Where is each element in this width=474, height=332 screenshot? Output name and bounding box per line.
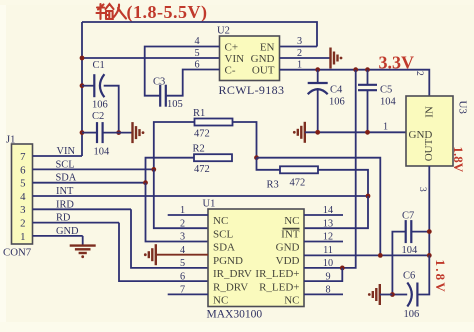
junction C6/C7 ground	[390, 292, 395, 297]
junction C5 bottom	[365, 130, 370, 135]
svg-text:U2: U2	[217, 26, 230, 37]
wire C4 top stem	[317, 70, 319, 83]
svg-text:NC: NC	[213, 215, 228, 227]
net label 1.8V at C6 (rotated)	[433, 260, 448, 294]
wire U2 pin4 C+ down to C3	[145, 47, 220, 96]
U1 pin name NC (pin 7)	[213, 295, 228, 307]
svg-text:OUT: OUT	[423, 138, 435, 161]
wire INT from J1 pin4 to node under R3	[33, 195, 369, 197]
wire GND from J1 pin1	[33, 235, 83, 237]
U2 pin name C-	[225, 65, 236, 77]
wire C1 right + drop to C2 row	[104, 86, 119, 133]
U2 pin number 4	[194, 36, 199, 47]
svg-text:106: 106	[404, 309, 420, 320]
svg-text:U3: U3	[457, 101, 469, 115]
ground symbol at J1 GND	[70, 246, 96, 259]
wire input vertical riser at x82	[81, 22, 83, 156]
C2 refdes label	[92, 111, 104, 122]
svg-text:106: 106	[92, 100, 108, 111]
resistor R3	[280, 166, 318, 173]
capacitor C7	[406, 220, 412, 243]
U3 refdes label (rotated)	[457, 101, 469, 115]
svg-text:C-: C-	[225, 65, 236, 77]
svg-text:1.8V: 1.8V	[433, 260, 448, 294]
junction C5 top	[365, 67, 370, 72]
U1 pin number 3	[180, 232, 185, 243]
svg-text:C3: C3	[153, 77, 165, 88]
svg-text:R2: R2	[193, 144, 205, 155]
svg-text:VIN: VIN	[57, 146, 76, 157]
wire U1 pin10 IR_LED+	[304, 267, 342, 269]
junction LED supply	[340, 266, 345, 271]
svg-text:OUT: OUT	[252, 65, 275, 77]
svg-text:105: 105	[167, 99, 183, 110]
wire 3.3V down to IR_LED+	[342, 70, 355, 268]
net label INT	[56, 186, 74, 197]
svg-text:2: 2	[20, 218, 25, 230]
ground symbol at U1 PGND	[144, 244, 156, 265]
svg-text:5: 5	[20, 178, 25, 190]
svg-text:C+: C+	[225, 41, 239, 53]
wire to U1 pin9 R_LED+	[304, 268, 342, 281]
J1 pin number 4	[20, 191, 26, 203]
svg-text:C2: C2	[92, 111, 104, 122]
capacitor C4 (polarized)	[308, 83, 328, 94]
U2 pin name VIN	[225, 53, 245, 65]
svg-text:RD: RD	[56, 213, 71, 224]
wire C7 right to 1.8V line	[411, 231, 429, 233]
svg-text:3: 3	[180, 232, 185, 243]
svg-text:INT: INT	[281, 228, 300, 240]
wire common node row to VDD drop	[257, 158, 381, 256]
U1 pin number 11	[323, 245, 333, 256]
wire IRD from J1 pin3	[33, 208, 132, 210]
svg-text:MAX30100: MAX30100	[207, 309, 263, 321]
U2 pin number 1	[297, 59, 302, 70]
svg-text:4: 4	[194, 36, 199, 47]
net label 1.8V (rotated)	[451, 147, 466, 173]
C3 refdes label	[153, 77, 165, 88]
wire R3 left from common node	[257, 158, 281, 170]
U1 pin name NC (pin 14)	[284, 215, 299, 227]
capacitor C1 (polarized)	[94, 74, 104, 97]
svg-text:VDD: VDD	[276, 255, 300, 267]
U1 refdes label	[203, 199, 216, 210]
R1 refdes label	[193, 108, 205, 119]
U3 pin number 1	[383, 122, 388, 133]
C6 refdes label	[403, 271, 415, 282]
wire C6 left	[392, 294, 407, 296]
junction C1/C2 right	[116, 130, 121, 135]
net label RD	[56, 213, 71, 224]
svg-text:IN: IN	[423, 106, 435, 118]
wire U1 pin7 stub	[168, 293, 208, 295]
svg-text:PGND: PGND	[213, 255, 243, 267]
svg-text:C7: C7	[402, 211, 414, 222]
sensor U1 body	[208, 209, 304, 307]
J1 pin number 1	[20, 231, 25, 243]
wire VIN row to U2 pin5	[82, 57, 220, 59]
wire SDA down to U1 pin3	[146, 183, 209, 242]
wire 1.8V line down to C6	[418, 255, 429, 294]
wire R3 right down to INT node	[318, 170, 368, 196]
junction C4 top	[315, 67, 320, 72]
junction C1 row	[80, 83, 85, 88]
wire ground to C6 junction	[380, 294, 393, 296]
J1 pin number 3	[20, 204, 25, 216]
J1 value label CON7	[3, 247, 32, 259]
svg-text:6: 6	[20, 164, 26, 176]
J1 refdes label	[6, 135, 15, 146]
wire C3 right up to U2 pin6 C-	[166, 70, 220, 96]
wire R1 right to common node	[233, 122, 257, 158]
resistor R2	[194, 154, 232, 161]
svg-text:VIN: VIN	[225, 53, 245, 65]
svg-text:SDA: SDA	[56, 173, 77, 184]
svg-text:106: 106	[329, 97, 345, 108]
svg-text:SCL: SCL	[213, 228, 233, 240]
net label GND	[56, 226, 79, 237]
svg-text:5: 5	[194, 48, 199, 59]
wire C2 left	[82, 132, 97, 134]
U1 pin number 6	[180, 271, 185, 282]
U2 pin number 6	[194, 59, 199, 70]
svg-text:3: 3	[417, 187, 427, 192]
svg-text:104: 104	[402, 245, 419, 256]
R3 refdes label	[267, 180, 279, 191]
R1 value label 472	[194, 129, 210, 140]
capacitor C6 (polarized)	[407, 283, 417, 307]
regulator U3 body	[406, 96, 453, 166]
U1 pin name SDA (pin 3)	[213, 242, 235, 254]
U2 value label RCWL-9183	[219, 83, 285, 97]
svg-text:NC: NC	[284, 215, 299, 227]
svg-text:1: 1	[20, 231, 25, 243]
U1 pin name PGND (pin 4)	[213, 255, 243, 267]
junction 3.3V feed	[353, 67, 358, 72]
junction C7/1.8V	[427, 229, 432, 234]
svg-text:3: 3	[297, 36, 302, 47]
U1 pin name GND (pin 12)	[276, 242, 300, 254]
svg-text:C5: C5	[380, 85, 392, 96]
U1 pin number 12	[323, 232, 333, 243]
wire R1 left + drop to SCL	[154, 122, 195, 169]
svg-text:6: 6	[180, 271, 185, 282]
resistor R1	[195, 119, 233, 126]
svg-text:EN: EN	[260, 41, 275, 53]
U1 pin number 5	[180, 258, 185, 269]
wire VIN from J1 pin7	[33, 155, 83, 157]
svg-text:NC: NC	[284, 295, 299, 307]
U2 pin name C+	[225, 41, 239, 53]
U1 pin name SCL (pin 2)	[213, 228, 233, 240]
junction pull-up common node	[254, 155, 259, 160]
wire SDA from J1 pin5	[33, 182, 146, 184]
wire ground stub below GND	[82, 236, 84, 245]
svg-text:RCWL-9183: RCWL-9183	[219, 83, 285, 97]
connector J1 body	[12, 144, 33, 244]
svg-text:SDA: SDA	[213, 242, 235, 254]
C1 value label 106	[92, 100, 108, 111]
U3 pin name OUT (rotated)	[423, 138, 435, 161]
wire INT down to U1 pin13	[304, 196, 368, 228]
svg-text:1: 1	[297, 59, 302, 70]
svg-text:2: 2	[414, 71, 424, 76]
svg-text:4: 4	[20, 191, 26, 203]
svg-text:1: 1	[383, 122, 388, 133]
U2 pin name OUT	[252, 65, 275, 77]
net label VIN	[57, 146, 76, 157]
svg-text:3.3V: 3.3V	[379, 53, 415, 73]
svg-text:472: 472	[194, 129, 210, 140]
capacitor C2	[97, 122, 103, 143]
ground symbol at U2 GND	[331, 48, 343, 69]
wire 3.3V rail from U2 OUT	[280, 70, 430, 96]
junction INT/R3	[366, 194, 371, 199]
U1 pin name NC (pin 1)	[213, 215, 228, 227]
C7 value label 104	[402, 245, 419, 256]
wire VDD row U1 pin11 to U3 pin3	[304, 254, 429, 256]
svg-text:104: 104	[380, 97, 397, 108]
wire SCL from J1 pin6	[33, 168, 154, 170]
U3 pin number 2 (rotated)	[414, 71, 424, 76]
junction C2 row	[80, 130, 85, 135]
svg-text:1.8V: 1.8V	[451, 147, 466, 173]
svg-text:3: 3	[20, 204, 25, 216]
net label IRD	[56, 199, 74, 210]
svg-text:C1: C1	[93, 60, 105, 71]
R2 value label 472	[194, 164, 210, 175]
svg-text:5: 5	[180, 258, 185, 269]
svg-text:R_DRV: R_DRV	[213, 281, 248, 293]
svg-text:13: 13	[323, 218, 333, 229]
R3 value label 472	[290, 178, 306, 189]
C3 value label 105	[167, 99, 183, 110]
capacitor C3	[160, 85, 166, 107]
U1 pin number 1	[180, 205, 185, 216]
C4 value label 106	[329, 97, 345, 108]
wire U2 pin2 GND stub	[280, 57, 331, 59]
wire C2 right to ground	[103, 132, 132, 134]
svg-text:IRD: IRD	[56, 199, 74, 210]
svg-text:SCL: SCL	[56, 159, 75, 170]
svg-text:104: 104	[94, 147, 111, 158]
wire U1 pin8 stub	[304, 293, 343, 295]
J1 pin number 5	[20, 178, 25, 190]
wire U1 pin4 PGND to ground	[156, 254, 208, 256]
red input-voltage title text 输入(1.8-5.5V)	[97, 2, 208, 23]
svg-text:CON7: CON7	[3, 247, 32, 259]
R2 refdes label	[193, 144, 205, 155]
wire C1 left	[82, 85, 94, 87]
C5 value label 104	[380, 97, 397, 108]
wire U1 pin1 stub	[168, 214, 208, 216]
junction VIN row	[80, 56, 85, 61]
C6 value label 106	[404, 309, 420, 320]
wire C4 bottom stem	[317, 89, 319, 132]
svg-text:IR_DRV: IR_DRV	[213, 268, 252, 280]
svg-text:472: 472	[290, 178, 306, 189]
wire U1 pin12 stub	[304, 241, 343, 243]
svg-text:GND: GND	[276, 242, 300, 254]
C1 refdes label	[93, 60, 105, 71]
U3 pin name IN (rotated)	[423, 106, 435, 118]
capacitor C5	[358, 85, 377, 90]
svg-text:C4: C4	[330, 85, 343, 96]
wire RD down to U1 pin6	[119, 223, 208, 282]
ground symbol right of C2	[133, 122, 145, 143]
wire ground rail to U3 pin1	[305, 131, 406, 133]
C7 refdes label	[402, 211, 414, 222]
junction SDA/R2	[143, 180, 148, 185]
svg-text:J1: J1	[6, 135, 15, 146]
svg-text:GND: GND	[251, 53, 275, 65]
wire SCL down to U1 pin2	[154, 169, 208, 228]
svg-text:IR_LED+: IR_LED+	[255, 268, 299, 280]
charge-pump U2 body	[220, 36, 280, 81]
J1 pin number 6	[20, 164, 26, 176]
wire RD from J1 pin2	[33, 222, 120, 224]
svg-text:R3: R3	[267, 180, 279, 191]
C2 value label 104	[94, 147, 111, 158]
wire C7 left + drop to ground row	[392, 232, 405, 295]
U1 pin name VDD (pin 11)	[276, 255, 300, 267]
U1 pin name INT (pin 13)	[281, 228, 300, 240]
wire EN pin3 of U2	[280, 46, 318, 48]
wire C5 stems	[367, 70, 369, 133]
U2 pin number 5	[194, 48, 199, 59]
C5 refdes label	[380, 85, 392, 96]
svg-text:NC: NC	[213, 295, 228, 307]
wire U1 pin14 stub	[304, 214, 343, 216]
svg-text:472: 472	[194, 164, 210, 175]
svg-text:R_LED+: R_LED+	[259, 281, 299, 293]
U2 pin number 3	[297, 36, 302, 47]
wire R2 left + drop to SDA	[146, 158, 195, 183]
U1 pin number 2	[180, 218, 185, 229]
U2 pin number 2	[297, 48, 302, 59]
U2 refdes label	[217, 26, 230, 37]
U1 pin number 8	[325, 285, 330, 296]
net label 3.3V	[379, 53, 415, 73]
U1 pin name IR_LED+ (pin 10)	[255, 268, 299, 280]
U1 pin number 4	[180, 245, 185, 256]
net label SCL	[56, 159, 75, 170]
J1 pin number 2	[20, 218, 25, 230]
svg-text:(1.8-5.5V): (1.8-5.5V)	[127, 2, 208, 23]
U1 pin name R_DRV (pin 6)	[213, 281, 248, 293]
svg-text:7: 7	[20, 151, 26, 163]
wire input top rail to EN	[82, 22, 317, 47]
C4 refdes label	[330, 85, 343, 96]
wire IRD down to U1 pin5	[131, 209, 208, 268]
net label SDA	[56, 173, 77, 184]
U1 pin number 9	[325, 271, 330, 282]
U2 pin name EN	[260, 41, 275, 53]
U1 pin number 14	[323, 205, 333, 216]
svg-text:2: 2	[180, 218, 185, 229]
U1 pin name R_LED+ (pin 9)	[259, 281, 299, 293]
svg-text:GND: GND	[56, 226, 79, 237]
U3 pin name GND	[409, 129, 433, 141]
U1 pin name IR_DRV (pin 5)	[213, 268, 252, 280]
svg-text:R1: R1	[193, 108, 205, 119]
junction SCL/R1	[151, 167, 156, 172]
U1 value label MAX30100	[207, 309, 263, 321]
ground symbol left of C6	[368, 284, 380, 305]
svg-text:U1: U1	[203, 199, 216, 210]
U2 pin name GND	[251, 53, 275, 65]
junction VDD/pull-up drop	[378, 253, 383, 258]
U3 pin number 3 (rotated)	[417, 187, 427, 192]
J1 pin number 7	[20, 151, 26, 163]
svg-text:11: 11	[323, 245, 333, 256]
junction VDD/U3 out	[427, 253, 432, 258]
junction C4 bottom	[315, 130, 320, 135]
svg-text:INT: INT	[56, 186, 74, 197]
wire U3 pin3 down to VDD row	[428, 166, 430, 255]
ground symbol left of C4	[293, 122, 305, 143]
svg-text:C6: C6	[403, 271, 415, 282]
U1 pin number 13	[323, 218, 333, 229]
U1 pin number 7	[180, 285, 185, 296]
U1 pin name NC (pin 8)	[284, 295, 299, 307]
U1 pin number 10	[323, 258, 333, 269]
